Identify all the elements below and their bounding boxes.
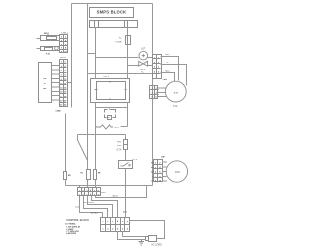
- wire stub grid2: [67, 82, 72, 84]
- wire relay to CN control: [125, 169, 127, 218]
- svg-text:CONTROL BLOCK: CONTROL BLOCK: [66, 218, 89, 222]
- thermal protector TP1: [139, 48, 148, 60]
- svg-text:PW: PW: [43, 78, 46, 80]
- wire motor lead 3: [161, 73, 175, 82]
- relay RY1: [119, 159, 138, 168]
- fan motor M2: [166, 161, 187, 182]
- svg-text:1 SW-DISPLAY: 1 SW-DISPLAY: [66, 225, 81, 228]
- svg-text:CN82: CN82: [56, 111, 62, 113]
- wire stub strip b: [87, 186, 89, 188]
- noise filter NF2: [37, 47, 60, 56]
- wire ribbon 2: [84, 196, 108, 218]
- wire bus A: [96, 186, 147, 198]
- thermostat S1: [139, 61, 148, 71]
- wire diagonal leg: [78, 140, 88, 161]
- wire motor lead 1: [161, 57, 179, 81]
- wire LF1 out right: [127, 103, 129, 127]
- wire to plug lower: [118, 232, 146, 240]
- svg-text:AC CORD: AC CORD: [151, 244, 162, 247]
- wire motor lead 2: [161, 65, 187, 86]
- svg-text:B17 BL02: B17 BL02: [84, 202, 95, 204]
- wire cutout to CN right: [148, 57, 153, 59]
- line filter LF1: [91, 76, 130, 102]
- noise filter NF1: [37, 33, 60, 41]
- wire relay drop: [125, 135, 127, 140]
- wire down leg: [77, 135, 79, 141]
- wire motor pins: [158, 88, 167, 97]
- connector CN4 motor grid: [150, 79, 168, 99]
- wire bottom bus: [66, 185, 153, 187]
- resistor R11 on left bus: [80, 170, 90, 180]
- svg-text:R80: R80: [117, 145, 122, 147]
- wire ribbon 3: [88, 196, 113, 218]
- svg-text:F-M: F-M: [173, 106, 177, 108]
- wire grid2 down: [65, 113, 67, 171]
- wire ribbon 4: [92, 196, 118, 218]
- svg-text:BL5: BL5: [165, 54, 170, 56]
- svg-text:FR1: FR1: [117, 141, 122, 143]
- wire board pins: [52, 66, 60, 100]
- wire feed left drop: [71, 4, 73, 108]
- wire ribbon 1: [80, 196, 103, 218]
- connector CN6 strip: [78, 188, 107, 197]
- wire AC neutral upper: [127, 28, 129, 36]
- wire stub strip a: [79, 186, 81, 188]
- svg-text:BL01: BL01: [113, 195, 119, 197]
- wire to thermal cutout: [96, 57, 139, 59]
- wire AC neutral lower: [127, 45, 129, 79]
- svg-text:6.7A: 6.7A: [117, 148, 122, 151]
- svg-text:CN81: CN81: [60, 57, 67, 59]
- svg-text:B3 BL4: B3 BL4: [91, 212, 99, 214]
- varistor network ZNR1: [105, 109, 116, 120]
- block CONTROL: [65, 218, 89, 235]
- svg-text:RY1: RY1: [133, 159, 138, 161]
- block sensor board: [39, 63, 52, 103]
- wire cross bus: [88, 73, 153, 75]
- svg-text:BL3: BL3: [166, 70, 171, 72]
- svg-text:SMPS BLOCK: SMPS BLOCK: [97, 9, 127, 14]
- wire left bus: [87, 4, 89, 170]
- wire varistor bus: [96, 107, 128, 109]
- plug P1: [146, 236, 163, 247]
- wire right bus: [152, 4, 154, 186]
- thermistor TH1: [96, 125, 128, 129]
- resistor block FR1: [117, 140, 128, 152]
- connector CN5 fan grid: [151, 156, 166, 182]
- resistor R12: [94, 170, 102, 188]
- wire LF1 out left: [95, 103, 97, 170]
- svg-text:LF1 1: LF1 1: [103, 76, 110, 78]
- svg-text:FUSE: FUSE: [115, 42, 122, 44]
- wire to thermostat: [128, 65, 139, 67]
- wire AC live: [95, 28, 97, 79]
- svg-text:4 BUZZER: 4 BUZZER: [66, 232, 76, 235]
- svg-text:C17 PANEL: C17 PANEL: [65, 223, 77, 226]
- wire fan pins: [162, 162, 167, 181]
- connector CN3 grid: [153, 55, 162, 79]
- fuse F1: [115, 36, 130, 45]
- motor M1: [165, 81, 186, 108]
- svg-text:A1T: A1T: [141, 48, 146, 51]
- wire thermostat to CN right: [148, 65, 153, 67]
- wire top bus: [72, 3, 153, 5]
- connector CN01 input strip: [90, 21, 138, 28]
- svg-text:C8M: C8M: [163, 79, 168, 81]
- svg-text:CN8: CN8: [101, 192, 106, 194]
- resistor R13: [64, 172, 72, 180]
- svg-text:W: W: [151, 167, 153, 169]
- wire stub left: [88, 53, 96, 55]
- ground: [139, 240, 145, 245]
- wire relay feed bus: [78, 134, 126, 136]
- connector CN2 grid: [60, 60, 68, 107]
- svg-text:NTC: NTC: [114, 127, 119, 129]
- wire to plug right: [130, 221, 165, 239]
- connector CN1 grid: [60, 35, 68, 54]
- connector CN7 control grid: [101, 218, 130, 232]
- svg-text:BL6: BL6: [123, 211, 128, 213]
- block SMPS title: [90, 8, 134, 18]
- svg-text:FAN: FAN: [175, 171, 180, 174]
- wire to plug upper: [123, 232, 146, 237]
- wire left bus lower: [87, 180, 89, 186]
- wire to bottom bus: [65, 180, 67, 186]
- svg-text:B-M: B-M: [174, 92, 178, 94]
- wire to relay: [125, 150, 127, 161]
